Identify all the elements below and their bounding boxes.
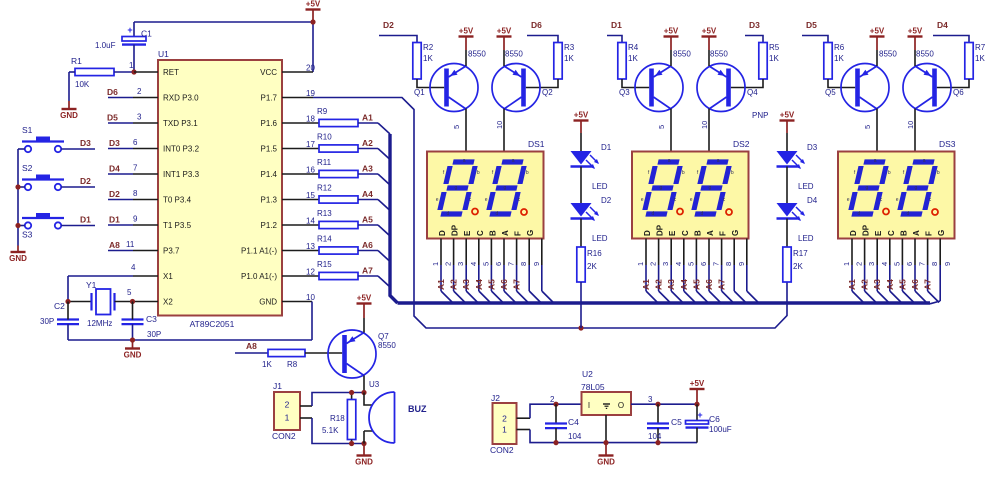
pin stub RET pin1 — [134, 71, 158, 73]
node buzzer top junction — [361, 390, 366, 395]
capacitor C5 104 — [647, 404, 682, 442]
wire U2 output pin3 — [631, 395, 697, 404]
svg-text:R6: R6 — [834, 43, 845, 52]
node S3 rail junction — [15, 223, 20, 228]
svg-text:GND: GND — [9, 254, 27, 263]
svg-text:D2: D2 — [383, 20, 394, 30]
svg-text:6: 6 — [699, 262, 708, 266]
wire R3 to Q2 base — [526, 79, 558, 88]
svg-text:+: + — [127, 25, 132, 35]
svg-text:GND: GND — [259, 298, 277, 307]
svg-text:+5V: +5V — [690, 379, 705, 388]
svg-text:12MHz: 12MHz — [87, 319, 112, 328]
svg-text:+5V: +5V — [357, 294, 372, 303]
wires DS2 pins to bus — [636, 239, 758, 303]
svg-text:BUZ: BUZ — [408, 404, 427, 414]
transistor Q2 8550 PNP — [492, 50, 553, 112]
svg-text:D4: D4 — [109, 164, 120, 174]
svg-text:P3.7: P3.7 — [163, 247, 180, 256]
svg-text:d: d — [447, 211, 450, 217]
node C5 top junction — [655, 402, 660, 407]
svg-text:A6: A6 — [704, 279, 714, 290]
svg-text:5: 5 — [481, 262, 490, 266]
node pin1 junction — [131, 69, 136, 74]
svg-text:10: 10 — [906, 121, 915, 129]
wire Q6 collector to display — [906, 109, 915, 152]
svg-text:d: d — [652, 211, 655, 217]
connector J1 CON2 — [272, 381, 300, 441]
svg-text:C: C — [681, 230, 690, 236]
svg-text:+5V: +5V — [870, 27, 885, 36]
svg-text:A1: A1 — [362, 113, 373, 123]
net label A5 wire — [358, 215, 390, 237]
svg-text:A6: A6 — [910, 279, 920, 290]
svg-text:A2: A2 — [654, 279, 664, 290]
svg-text:A4: A4 — [362, 189, 373, 199]
power +5V at Q5 emitter — [870, 27, 885, 67]
svg-text:D: D — [438, 230, 447, 236]
resistor R11 1K — [282, 158, 358, 178]
svg-text:R8: R8 — [287, 360, 298, 369]
svg-text:10: 10 — [700, 121, 709, 129]
svg-text:C2: C2 — [54, 301, 65, 311]
wire Q4 collector to display — [700, 109, 709, 152]
svg-text:GND: GND — [124, 351, 142, 360]
net label D2 wire pin8 — [108, 189, 158, 200]
svg-text:B: B — [899, 230, 908, 236]
resistor R9 1K — [282, 107, 358, 127]
svg-text:A2: A2 — [860, 279, 870, 290]
svg-text:P1.3: P1.3 — [261, 196, 278, 205]
svg-text:e: e — [690, 197, 693, 203]
svg-text:F: F — [514, 231, 523, 236]
buzzer U3 BUZ — [364, 392, 427, 444]
power +5V at Q2 emitter — [497, 27, 512, 67]
svg-text:R10: R10 — [317, 133, 332, 142]
svg-text:RET: RET — [163, 68, 179, 77]
svg-text:+5V: +5V — [497, 27, 512, 36]
svg-text:X2: X2 — [163, 298, 173, 307]
svg-text:A5: A5 — [486, 279, 496, 290]
wire Q2 collector to display — [495, 109, 504, 152]
svg-text:d: d — [701, 211, 704, 217]
svg-text:C: C — [887, 230, 896, 236]
wire J1 pin2 to buzzer top rail — [300, 393, 364, 407]
svg-text:A7: A7 — [362, 266, 373, 276]
capacitor C4 104 — [545, 404, 582, 442]
svg-text:D1: D1 — [601, 143, 612, 152]
svg-text:RXD P3.0: RXD P3.0 — [163, 94, 199, 103]
resistor R5 1K — [759, 43, 780, 80]
wire Q1 collector to display — [452, 109, 466, 152]
svg-text:104: 104 — [648, 432, 662, 441]
resistor R15 1K — [282, 260, 358, 280]
wire ground rail crystal to pin10 — [68, 339, 312, 341]
svg-text:Q7: Q7 — [378, 332, 389, 341]
svg-text:+5V: +5V — [702, 27, 717, 36]
wire J2 pin2 to regulator input — [517, 395, 582, 418]
resistor R2 1K — [413, 43, 434, 80]
resistor R3 1K — [554, 43, 575, 80]
svg-text:B: B — [693, 230, 702, 236]
svg-text:A7: A7 — [512, 279, 522, 290]
svg-text:1K: 1K — [834, 54, 844, 63]
svg-text:G: G — [731, 230, 740, 236]
svg-text:2K: 2K — [587, 262, 597, 271]
display DS1 two-digit 7-segment — [427, 139, 545, 239]
wire Q5 collector to display — [863, 109, 877, 152]
svg-text:D3: D3 — [749, 20, 760, 30]
svg-text:A2: A2 — [449, 279, 459, 290]
svg-text:g: g — [659, 185, 662, 191]
switch S1 — [22, 125, 64, 152]
wire R2 to Q1 base — [417, 79, 444, 88]
transistor Q3 8550 PNP — [619, 50, 691, 112]
net label A8 wire to R8 — [235, 341, 268, 353]
svg-text:D1: D1 — [611, 20, 622, 30]
svg-text:4: 4 — [469, 262, 478, 266]
svg-text:TXD P3.1: TXD P3.1 — [163, 119, 198, 128]
power +5V rail (top left) — [306, 0, 321, 22]
svg-text:LED: LED — [592, 234, 608, 243]
svg-text:A8: A8 — [246, 341, 257, 351]
svg-text:R1: R1 — [71, 56, 82, 66]
bus vertical A1-A7 — [390, 134, 398, 303]
svg-text:a: a — [463, 158, 466, 164]
svg-text:d: d — [858, 211, 861, 217]
resistor R13 1K — [282, 209, 358, 229]
resistor R10 1K — [282, 133, 358, 153]
svg-text:A1: A1 — [847, 279, 857, 290]
net label D4 wire pin7 — [108, 164, 158, 175]
svg-text:13: 13 — [306, 242, 315, 251]
node buzzer bottom junction — [361, 441, 366, 446]
svg-text:g: g — [503, 185, 506, 191]
ground under crystal — [124, 340, 142, 360]
svg-text:LED: LED — [798, 182, 814, 191]
LED D3 — [777, 143, 818, 191]
svg-text:A3: A3 — [362, 164, 373, 174]
svg-text:104: 104 — [568, 432, 582, 441]
svg-text:3: 3 — [661, 262, 670, 266]
svg-text:J2: J2 — [491, 393, 500, 403]
svg-text:8: 8 — [724, 262, 733, 266]
svg-text:30P: 30P — [147, 330, 161, 339]
svg-text:D2: D2 — [109, 189, 120, 199]
net label D5 wire pin3 — [107, 113, 158, 124]
svg-text:A6: A6 — [362, 240, 373, 250]
svg-text:5: 5 — [452, 125, 461, 129]
svg-text:5: 5 — [892, 262, 901, 266]
resistor R17 2K — [783, 247, 808, 282]
power +5V at Q4 emitter — [702, 27, 717, 67]
wire X1 pin4 — [68, 276, 158, 302]
svg-text:a: a — [874, 158, 877, 164]
svg-text:15: 15 — [306, 191, 315, 200]
svg-text:R2: R2 — [423, 43, 434, 52]
svg-text:30P: 30P — [40, 317, 54, 326]
net label D2 wire to R2 — [379, 20, 417, 43]
svg-text:1K: 1K — [628, 54, 638, 63]
svg-text:O: O — [618, 401, 624, 410]
svg-text:8550: 8550 — [468, 50, 486, 59]
svg-text:A6: A6 — [499, 279, 509, 290]
svg-text:2: 2 — [649, 262, 658, 266]
svg-text:7: 7 — [712, 262, 721, 266]
net label A1 wire — [358, 113, 390, 135]
svg-text:A3: A3 — [461, 279, 471, 290]
svg-text:A5: A5 — [362, 215, 373, 225]
svg-text:DP: DP — [451, 224, 460, 236]
node R18 bottom junction — [349, 441, 354, 446]
svg-text:100uF: 100uF — [709, 425, 732, 434]
svg-text:R11: R11 — [317, 158, 332, 167]
svg-text:U3: U3 — [369, 380, 380, 389]
svg-text:8: 8 — [519, 262, 528, 266]
svg-text:9: 9 — [737, 262, 746, 266]
svg-text:10: 10 — [306, 293, 315, 302]
svg-text:G: G — [526, 230, 535, 236]
pin numbers U1 right — [306, 64, 315, 303]
svg-text:b: b — [888, 170, 891, 176]
svg-text:AT89C2051: AT89C2051 — [190, 319, 235, 329]
svg-text:R13: R13 — [317, 209, 332, 218]
svg-text:C: C — [476, 230, 485, 236]
wire S1 to net label D3 — [18, 138, 95, 149]
svg-text:D: D — [849, 230, 858, 236]
svg-text:I: I — [588, 401, 590, 410]
resistor R4 1K — [618, 43, 639, 80]
svg-text:T1 P3.5: T1 P3.5 — [163, 221, 192, 230]
node C4 bottom junction — [553, 440, 558, 445]
capacitor C2 30P — [40, 301, 79, 340]
svg-text:10: 10 — [495, 121, 504, 129]
node crystal left junction — [65, 299, 70, 304]
resistor R12 1K — [282, 184, 358, 204]
svg-text:3: 3 — [867, 262, 876, 266]
node R18 top junction — [349, 390, 354, 395]
svg-text:D4: D4 — [807, 196, 818, 205]
transistor Q6 8550 PNP — [903, 50, 964, 112]
wire LED to R17 — [786, 219, 788, 248]
display DS3 two-digit 7-segment — [838, 139, 956, 239]
svg-text:1: 1 — [636, 262, 645, 266]
wire switch ground rail — [17, 149, 19, 246]
svg-text:1K: 1K — [769, 54, 779, 63]
svg-text:GND: GND — [60, 111, 78, 120]
svg-text:b: b — [682, 170, 685, 176]
wire J2 pin1 to ground rail — [517, 430, 698, 443]
svg-text:GND: GND — [355, 458, 373, 467]
svg-text:D3: D3 — [807, 143, 818, 152]
svg-text:GND: GND — [597, 458, 615, 467]
svg-text:5: 5 — [863, 125, 872, 129]
svg-text:D5: D5 — [806, 20, 817, 30]
svg-text:b: b — [731, 170, 734, 176]
svg-text:A3: A3 — [872, 279, 882, 290]
svg-text:A3: A3 — [666, 279, 676, 290]
svg-text:5: 5 — [127, 288, 132, 297]
svg-text:CON2: CON2 — [272, 431, 296, 441]
svg-text:R14: R14 — [317, 235, 332, 244]
svg-text:U2: U2 — [582, 369, 593, 379]
svg-text:g: g — [454, 185, 457, 191]
svg-text:6: 6 — [133, 138, 138, 147]
ground under buzzer — [355, 444, 373, 467]
svg-text:C1: C1 — [141, 29, 152, 39]
net label A3 wire — [358, 164, 390, 186]
svg-text:e: e — [641, 197, 644, 203]
net label D6 wire pin2 — [107, 87, 158, 98]
svg-text:D6: D6 — [107, 87, 118, 97]
svg-text:E: E — [668, 230, 677, 236]
svg-text:Q3: Q3 — [619, 88, 630, 97]
wires DS1 pins to bus — [431, 239, 553, 303]
svg-text:4: 4 — [880, 262, 889, 266]
svg-text:5: 5 — [657, 125, 666, 129]
svg-text:1K: 1K — [975, 54, 985, 63]
wire LED chain mid — [580, 167, 582, 204]
transistor Q1 8550 PNP — [414, 50, 486, 112]
ground under R1 — [60, 101, 78, 120]
svg-text:D1: D1 — [80, 215, 91, 225]
svg-text:14: 14 — [306, 217, 315, 226]
svg-text:9: 9 — [943, 262, 952, 266]
net label D1 wire to R4 — [607, 20, 622, 43]
svg-text:D5: D5 — [107, 113, 118, 123]
svg-text:1: 1 — [502, 425, 507, 435]
wire R16 to rail — [580, 282, 582, 328]
svg-text:9: 9 — [532, 262, 541, 266]
svg-text:C5: C5 — [671, 417, 682, 427]
bus horizontal under displays — [398, 301, 931, 304]
resistor R16 2K — [577, 247, 602, 282]
net label D3 wire pin6 — [108, 138, 158, 149]
svg-text:e: e — [436, 197, 439, 203]
ground under U2 — [597, 443, 615, 467]
svg-text:X1: X1 — [163, 272, 173, 281]
svg-text:Q2: Q2 — [542, 88, 553, 97]
svg-text:Y1: Y1 — [86, 280, 97, 290]
wire P1.7 pin19 to LED resistors — [282, 98, 787, 329]
svg-text:17: 17 — [306, 140, 315, 149]
svg-text:P1.1 A1(-): P1.1 A1(-) — [241, 247, 277, 256]
svg-text:1: 1 — [431, 262, 440, 266]
wire LED chain mid — [786, 167, 788, 204]
svg-text:+5V: +5V — [306, 0, 321, 9]
svg-text:G: G — [937, 230, 946, 236]
svg-text:16: 16 — [306, 166, 315, 175]
wire X2 pin5 — [133, 301, 159, 303]
node R16 rail junction — [578, 325, 583, 330]
svg-text:a: a — [512, 158, 515, 164]
net label D3 wire to R5 — [745, 20, 763, 43]
svg-text:P1.4: P1.4 — [261, 170, 278, 179]
svg-text:2: 2 — [137, 87, 142, 96]
wire R5 to Q4 base — [731, 79, 763, 88]
svg-text:S3: S3 — [22, 230, 33, 240]
resistor R18 5.1K — [322, 393, 356, 444]
transistor Q5 8550 PNP — [825, 50, 897, 112]
svg-text:DS3: DS3 — [939, 139, 956, 149]
node C6 top junction — [694, 402, 699, 407]
power +5V at Q1 emitter — [459, 27, 474, 67]
wire J1 pin1 to buzzer bottom rail — [300, 418, 364, 444]
svg-text:e: e — [485, 197, 488, 203]
power +5V LED chain R17 — [752, 111, 795, 152]
svg-text:1.0uF: 1.0uF — [95, 41, 116, 50]
svg-text:P1.0 A1(-): P1.0 A1(-) — [241, 272, 277, 281]
svg-text:DS2: DS2 — [733, 139, 750, 149]
resistor R6 1K — [824, 43, 845, 80]
wire S2 to net label D2 — [18, 176, 95, 187]
svg-text:D2: D2 — [601, 196, 612, 205]
node crystal right junction — [130, 299, 135, 304]
node C5 bottom junction — [655, 440, 660, 445]
svg-text:R5: R5 — [769, 43, 780, 52]
svg-text:3: 3 — [137, 113, 142, 122]
svg-text:R18: R18 — [330, 414, 345, 423]
svg-text:2: 2 — [855, 262, 864, 266]
net label A2 wire — [358, 138, 390, 160]
svg-text:DP: DP — [656, 224, 665, 236]
svg-text:Q6: Q6 — [953, 88, 964, 97]
capacitor C6 100uF — [686, 404, 732, 442]
IC U1 AT89C2051 — [158, 49, 282, 329]
wires DS3 pins to bus — [842, 239, 952, 304]
switch S3 — [22, 213, 64, 240]
svg-text:DP: DP — [862, 224, 871, 236]
power +5V regulator output — [690, 379, 705, 404]
power +5V at Q6 emitter — [908, 27, 923, 67]
svg-text:12: 12 — [306, 268, 315, 277]
svg-text:C6: C6 — [709, 414, 720, 424]
svg-text:A: A — [706, 230, 715, 236]
svg-text:P1.2: P1.2 — [261, 221, 278, 230]
svg-text:+5V: +5V — [780, 111, 795, 120]
pin stub VCC pin20 — [282, 71, 313, 73]
svg-text:2: 2 — [502, 414, 507, 424]
svg-text:A: A — [912, 230, 921, 236]
svg-text:A8: A8 — [109, 240, 120, 250]
net label A7 wire — [358, 266, 390, 288]
svg-text:11: 11 — [126, 240, 135, 249]
svg-text:P1.6: P1.6 — [261, 119, 278, 128]
svg-text:J1: J1 — [273, 381, 282, 391]
svg-text:A: A — [501, 230, 510, 236]
svg-text:6: 6 — [905, 262, 914, 266]
svg-text:8: 8 — [133, 189, 138, 198]
svg-text:R17: R17 — [793, 249, 808, 258]
wire LED to R16 — [580, 219, 582, 248]
svg-text:U1: U1 — [158, 49, 169, 59]
svg-text:VCC: VCC — [260, 68, 277, 77]
svg-text:Q1: Q1 — [414, 88, 425, 97]
LED D2 — [571, 196, 612, 243]
transistor Q4 8550 PNP — [697, 50, 758, 112]
svg-text:8550: 8550 — [378, 341, 396, 350]
wire Q7 collector to buzzer — [364, 376, 380, 393]
svg-text:R4: R4 — [628, 43, 639, 52]
svg-text:D6: D6 — [531, 20, 542, 30]
svg-text:C3: C3 — [146, 314, 157, 324]
svg-text:A1: A1 — [641, 279, 651, 290]
svg-text:d: d — [496, 211, 499, 217]
svg-text:g: g — [914, 185, 917, 191]
svg-text:R15: R15 — [317, 260, 332, 269]
svg-text:1: 1 — [842, 262, 851, 266]
svg-text:18: 18 — [306, 115, 315, 124]
